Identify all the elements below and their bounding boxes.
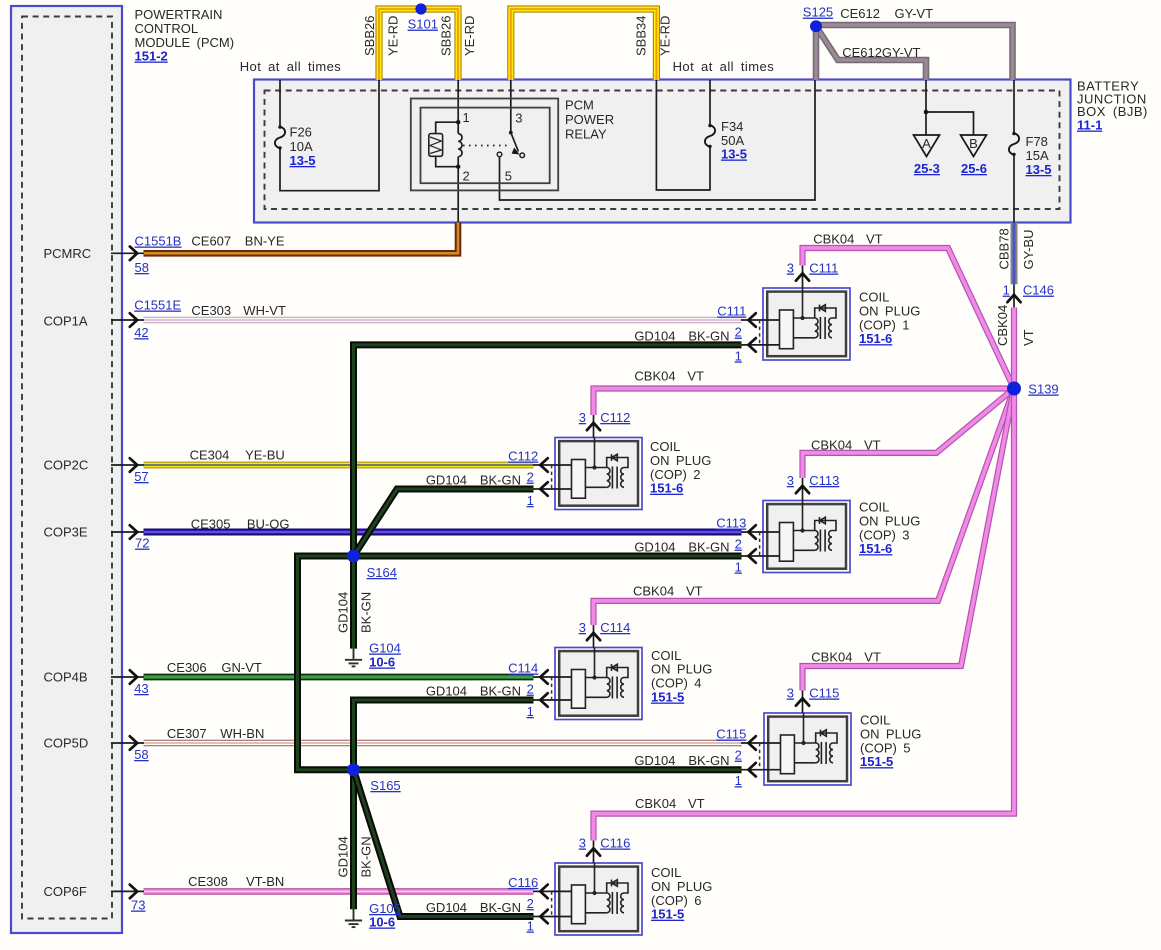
C114 pin 1 lead <box>533 699 572 701</box>
wire relay pin 3 feed from SBB34 <box>510 80 512 133</box>
pin COP3E <box>111 531 144 533</box>
svg-text:1: 1 <box>527 704 534 719</box>
pin COP1A <box>111 319 144 321</box>
svg-text:VT: VT <box>1021 329 1036 346</box>
relay switch pivot <box>509 131 513 135</box>
wire relay coil feed from SBB26 <box>457 80 459 122</box>
wire relay pin 5 to S125 drop <box>500 80 816 200</box>
svg-text:COP5D: COP5D <box>44 736 89 751</box>
C113 pin 3 lead <box>802 478 804 501</box>
svg-text:SBB26: SBB26 <box>362 16 377 56</box>
relay pin 5 circle <box>497 152 502 157</box>
svg-text:VT-BN: VT-BN <box>246 874 284 889</box>
svg-text:C116: C116 <box>508 875 538 890</box>
wire CBK04 VT splice S139 to coil 5 <box>803 389 1015 691</box>
svg-text:3: 3 <box>579 410 586 425</box>
relay actuation dotted link <box>463 145 509 147</box>
svg-text:(COP) 1: (COP) 1 <box>859 317 909 332</box>
wire F78 to BJB bottom <box>1013 155 1015 223</box>
svg-text:C115: C115 <box>809 686 839 701</box>
wire CBB78 GY-BU from F78 to C146 <box>1011 223 1018 285</box>
C112 pin 2 lead <box>533 464 572 466</box>
svg-text:YE-RD: YE-RD <box>657 16 672 56</box>
svg-text:C111: C111 <box>717 304 746 319</box>
svg-text:COP3E: COP3E <box>44 525 88 540</box>
svg-text:GD104 BK-GN: GD104 BK-GN <box>426 900 521 915</box>
svg-text:GD104 BK-GN: GD104 BK-GN <box>634 540 729 555</box>
BJB inner dashed border <box>265 91 1060 210</box>
svg-text:GD104 BK-GN: GD104 BK-GN <box>634 753 729 768</box>
C113 connector dashed tie <box>759 532 761 556</box>
svg-text:VT: VT <box>686 584 703 599</box>
wire SBB26 YE-RD loop through splice S101 <box>379 9 458 80</box>
svg-text:C115: C115 <box>716 727 746 742</box>
svg-text:WH-BN: WH-BN <box>220 726 264 741</box>
fuse F26 <box>275 125 285 149</box>
svg-text:BN-YE: BN-YE <box>245 234 285 249</box>
off-page connector triangle A <box>914 135 940 157</box>
svg-text:10A: 10A <box>290 139 313 154</box>
relay resistor zigzag <box>430 137 441 154</box>
svg-text:2: 2 <box>527 896 534 911</box>
svg-text:2: 2 <box>735 537 742 552</box>
svg-text:CONTROL: CONTROL <box>135 21 199 36</box>
svg-text:2: 2 <box>735 748 742 763</box>
svg-text:2: 2 <box>463 169 470 184</box>
svg-text:3: 3 <box>579 620 586 635</box>
C112 connector dashed tie <box>551 465 553 489</box>
svg-text:1: 1 <box>1003 283 1010 298</box>
svg-text:C112: C112 <box>508 449 538 464</box>
svg-text:Hot at all times: Hot at all times <box>240 59 342 74</box>
wire fuse F26 branch <box>279 80 281 127</box>
wire CE305 BU-OG <box>144 529 742 536</box>
ground G105 <box>345 909 362 927</box>
svg-text:CE308: CE308 <box>188 874 228 889</box>
svg-text:Hot at all times: Hot at all times <box>673 59 775 74</box>
svg-text:COIL: COIL <box>651 865 681 880</box>
svg-text:(COP) 6: (COP) 6 <box>651 893 701 908</box>
svg-text:COP1A: COP1A <box>44 314 88 329</box>
svg-text:GD104: GD104 <box>336 836 351 877</box>
svg-text:ON PLUG: ON PLUG <box>859 303 920 318</box>
svg-text:CE607: CE607 <box>191 234 231 249</box>
relay switch blade arrowhead <box>512 148 520 155</box>
svg-text:13-5: 13-5 <box>1026 162 1052 177</box>
svg-text:COIL: COIL <box>860 713 890 728</box>
wire CBK04 VT splice S139 to coil 6 <box>594 389 1015 841</box>
svg-text:GD104 BK-GN: GD104 BK-GN <box>426 473 521 488</box>
svg-text:F26: F26 <box>290 125 312 140</box>
wire CBK04 VT splice S139 to coil 4 <box>594 389 1015 626</box>
svg-text:RELAY: RELAY <box>565 127 607 142</box>
svg-text:F34: F34 <box>721 119 743 134</box>
svg-text:CBK04: CBK04 <box>811 438 852 453</box>
svg-text:151-5: 151-5 <box>651 907 684 922</box>
svg-text:CBK04: CBK04 <box>995 305 1010 346</box>
svg-text:GN-VT: GN-VT <box>221 660 262 675</box>
wire GD104 BK-GN coil 4 through S165 to ground G105 <box>354 700 534 909</box>
wire S125 drop to off-page triangles <box>925 80 927 135</box>
svg-text:PCMRC: PCMRC <box>44 246 92 261</box>
svg-text:C112: C112 <box>600 410 630 425</box>
svg-text:C111: C111 <box>809 261 838 276</box>
relay coil winding <box>458 122 462 167</box>
C116 pin 3 lead <box>593 841 595 864</box>
svg-text:1: 1 <box>527 493 534 508</box>
svg-text:B: B <box>969 136 978 151</box>
svg-text:42: 42 <box>134 325 148 340</box>
svg-text:73: 73 <box>131 898 145 913</box>
svg-text:ON PLUG: ON PLUG <box>651 879 712 894</box>
svg-text:COIL: COIL <box>859 500 889 515</box>
svg-text:3: 3 <box>787 686 794 701</box>
wire F78 feed <box>1013 80 1015 133</box>
svg-text:POWER: POWER <box>565 112 614 127</box>
svg-text:43: 43 <box>134 681 148 696</box>
splice S125 <box>810 20 822 32</box>
wire GD104 BK-GN coil 1 to splice S164 and ground G104 <box>354 345 742 649</box>
C113 pin 1 lead <box>741 555 780 557</box>
BJB box <box>254 80 1071 223</box>
svg-text:CBB78: CBB78 <box>997 228 1012 269</box>
svg-text:GD104 BK-GN: GD104 BK-GN <box>426 684 521 699</box>
wire F26 to SBB26 leg <box>280 80 379 191</box>
relay pin 1 junction <box>456 120 460 124</box>
svg-text:25-3: 25-3 <box>914 161 940 176</box>
pin COP6F <box>111 890 144 892</box>
svg-text:2: 2 <box>735 325 742 340</box>
C114 connector dashed tie <box>551 677 553 700</box>
svg-text:13-5: 13-5 <box>290 153 316 168</box>
wire CE304 YE-BU <box>144 462 534 469</box>
C115 pin 2 lead <box>741 742 781 744</box>
svg-text:VT: VT <box>688 796 705 811</box>
C115 pin 1 lead <box>741 769 781 771</box>
svg-text:CE307: CE307 <box>167 726 207 741</box>
wire branch to triangle B <box>926 112 974 135</box>
svg-text:ON PLUG: ON PLUG <box>650 453 711 468</box>
relay switch blade <box>511 133 519 152</box>
relay pin 2 junction <box>456 165 460 169</box>
junction dot <box>924 110 929 115</box>
svg-text:C1551B: C1551B <box>135 234 182 249</box>
C113 pin 2 lead <box>741 531 780 533</box>
svg-text:1: 1 <box>735 348 742 363</box>
svg-text:(COP) 3: (COP) 3 <box>859 527 909 542</box>
svg-text:GY-BU: GY-BU <box>1021 230 1036 270</box>
svg-text:WH-VT: WH-VT <box>243 303 286 318</box>
svg-text:S125: S125 <box>803 5 833 20</box>
svg-text:A: A <box>922 136 931 151</box>
svg-text:COP2C: COP2C <box>44 458 89 473</box>
C111 pin 2 lead <box>741 319 780 321</box>
svg-text:C116: C116 <box>600 836 630 851</box>
svg-text:1: 1 <box>463 110 470 125</box>
wire CE612 GY-VT upper run from S125 to F78 <box>816 25 1013 80</box>
svg-text:C114: C114 <box>508 661 538 676</box>
wire SBB34 YE-RD loop <box>511 9 657 80</box>
wire F34 top to BJB edge <box>709 80 711 125</box>
svg-text:11-1: 11-1 <box>1077 118 1102 133</box>
splice S165 <box>347 763 360 776</box>
C115 connector dashed tie <box>759 743 761 770</box>
svg-text:1: 1 <box>735 773 742 788</box>
svg-text:(COP) 4: (COP) 4 <box>651 676 701 691</box>
svg-text:YE-BU: YE-BU <box>245 448 285 463</box>
PCM inner dashed border <box>22 17 112 919</box>
svg-text:151-6: 151-6 <box>859 331 892 346</box>
svg-text:72: 72 <box>135 536 149 551</box>
svg-text:2: 2 <box>527 682 534 697</box>
svg-text:58: 58 <box>134 747 148 762</box>
svg-text:58: 58 <box>135 260 149 275</box>
svg-text:C114: C114 <box>600 620 630 635</box>
C114 pin 3 lead <box>593 625 595 648</box>
C112 pin 1 lead <box>533 488 572 490</box>
svg-text:COIL: COIL <box>651 648 681 663</box>
C111 connector dashed tie <box>759 320 761 345</box>
svg-text:CE305: CE305 <box>191 517 231 532</box>
svg-text:GD104: GD104 <box>336 592 351 633</box>
svg-text:CE612GY-VT: CE612GY-VT <box>842 45 920 60</box>
svg-text:C1551E: C1551E <box>134 298 181 313</box>
svg-text:S165: S165 <box>370 778 400 793</box>
svg-text:GY-VT: GY-VT <box>895 6 934 21</box>
PCM module box <box>11 6 122 933</box>
svg-text:YE-RD: YE-RD <box>462 16 477 56</box>
svg-text:ON PLUG: ON PLUG <box>860 726 921 741</box>
wire GD104 BK-GN coil 5 to splice S165 <box>354 766 742 773</box>
relay contact circle <box>520 153 525 158</box>
svg-text:15A: 15A <box>1026 148 1049 163</box>
svg-text:151-5: 151-5 <box>860 754 893 769</box>
svg-text:3: 3 <box>579 836 586 851</box>
splice S101 <box>415 3 426 14</box>
wire CE308 VT-BN <box>144 888 534 895</box>
svg-text:BK-GN: BK-GN <box>359 836 374 877</box>
wire GD104 BK-GN splice S165 to coil 6 <box>354 770 534 917</box>
svg-text:2: 2 <box>527 470 534 485</box>
svg-text:COIL: COIL <box>859 290 889 305</box>
relay resistor body <box>429 134 443 157</box>
fuse F78 <box>1009 132 1019 156</box>
svg-text:VT: VT <box>864 438 881 453</box>
svg-text:BK-GN: BK-GN <box>359 592 374 633</box>
wire GD104 BK-GN coil 3 through S164 to splice S165 <box>298 556 742 770</box>
relay inner box <box>421 108 550 184</box>
svg-text:CBK04: CBK04 <box>813 232 854 247</box>
svg-text:COP4B: COP4B <box>44 670 88 685</box>
svg-text:C146: C146 <box>1023 283 1054 298</box>
svg-text:57: 57 <box>134 469 148 484</box>
wire CE612 GY-VT lower run from S125 to BJB <box>816 26 926 80</box>
svg-text:1: 1 <box>735 560 742 575</box>
wire GD104 BK-GN coil 2 to splice S164 <box>354 489 534 556</box>
wire F34 branch from SBB34 leg <box>656 80 710 190</box>
C112 pin 3 lead <box>593 415 595 438</box>
C115 pin 3 lead <box>802 691 804 714</box>
wire CBK04 VT splice S139 up to connector C146 <box>1011 308 1017 389</box>
wire CBK04 VT splice S139 to coil 2 <box>594 389 1015 416</box>
C114 pin 2 lead <box>533 676 572 678</box>
svg-text:151-5: 151-5 <box>651 690 684 705</box>
svg-text:YE-RD: YE-RD <box>386 16 401 56</box>
svg-text:POWERTRAIN: POWERTRAIN <box>135 7 223 22</box>
wire relay pin 2 to BJB bottom <box>457 167 459 223</box>
svg-text:5: 5 <box>505 169 512 184</box>
svg-text:(COP) 2: (COP) 2 <box>650 467 700 482</box>
svg-text:G104: G104 <box>369 641 401 656</box>
C116 connector dashed tie <box>551 891 553 916</box>
svg-text:CE612: CE612 <box>840 6 880 21</box>
splice S164 <box>347 550 360 563</box>
svg-text:COIL: COIL <box>650 439 680 454</box>
svg-text:C113: C113 <box>809 473 839 488</box>
fuse F34 <box>705 124 715 148</box>
pin COP4B <box>111 676 144 678</box>
svg-text:CE306: CE306 <box>167 660 207 675</box>
svg-text:COP6F: COP6F <box>44 884 87 899</box>
svg-text:CBK04: CBK04 <box>633 584 674 599</box>
svg-text:VT: VT <box>864 650 881 665</box>
wire CBK04 VT splice S139 to coil 1 <box>803 248 1015 389</box>
svg-text:CBK04: CBK04 <box>811 650 852 665</box>
svg-text:PCM: PCM <box>565 98 594 113</box>
svg-text:SBB34: SBB34 <box>633 16 648 56</box>
svg-text:151-6: 151-6 <box>650 481 683 496</box>
svg-text:(COP) 5: (COP) 5 <box>860 740 910 755</box>
wire CE303 WH-VT <box>144 317 742 324</box>
svg-text:10-6: 10-6 <box>369 655 395 670</box>
C111 pin 3 lead <box>802 266 804 289</box>
svg-text:ON PLUG: ON PLUG <box>651 662 712 677</box>
svg-text:CBK04: CBK04 <box>635 796 676 811</box>
svg-text:151-6: 151-6 <box>859 541 892 556</box>
svg-text:1: 1 <box>527 919 534 934</box>
svg-text:151-2: 151-2 <box>135 49 168 64</box>
wire CE607 BN-YE from PCM pin 58 to relay pin 2 <box>144 223 459 254</box>
svg-text:3: 3 <box>787 473 794 488</box>
wire CBK04 VT splice S139 to coil 3 <box>803 389 1015 479</box>
C116 pin 2 lead <box>533 890 572 892</box>
svg-text:CE304: CE304 <box>190 448 230 463</box>
off-page connector triangle B <box>961 135 987 157</box>
wire GY-VT drop from S125 into BJB <box>813 26 820 80</box>
svg-text:GD104 BK-GN: GD104 BK-GN <box>634 328 729 343</box>
C116 pin 1 lead <box>533 916 572 918</box>
ground G104 <box>345 649 362 667</box>
svg-text:VT: VT <box>687 369 704 384</box>
svg-text:BU-OG: BU-OG <box>247 517 290 532</box>
pin COP2C <box>111 464 144 466</box>
svg-text:3: 3 <box>515 111 522 126</box>
svg-text:S164: S164 <box>367 565 397 580</box>
C111 pin 1 lead <box>741 344 780 346</box>
svg-text:ON PLUG: ON PLUG <box>859 513 920 528</box>
pin COP5D <box>111 742 144 744</box>
svg-text:13-5: 13-5 <box>721 147 747 162</box>
wire CE306 GN-VT <box>144 674 534 681</box>
svg-text:CE303: CE303 <box>191 303 231 318</box>
svg-text:CBK04: CBK04 <box>634 369 675 384</box>
svg-text:SBB26: SBB26 <box>438 16 453 56</box>
svg-text:C113: C113 <box>716 516 746 531</box>
svg-text:VT: VT <box>866 232 883 247</box>
wire CE307 WH-BN <box>144 740 742 746</box>
splice S139 <box>1007 382 1021 396</box>
svg-text:10-6: 10-6 <box>369 915 395 930</box>
pin PCMRC <box>111 252 144 254</box>
relay outer box <box>411 99 558 191</box>
relay resistor loop <box>436 122 459 167</box>
svg-text:25-6: 25-6 <box>961 161 987 176</box>
svg-text:S139: S139 <box>1028 382 1058 397</box>
svg-text:S101: S101 <box>408 17 438 32</box>
svg-text:F78: F78 <box>1026 134 1048 149</box>
svg-text:3: 3 <box>787 261 794 276</box>
